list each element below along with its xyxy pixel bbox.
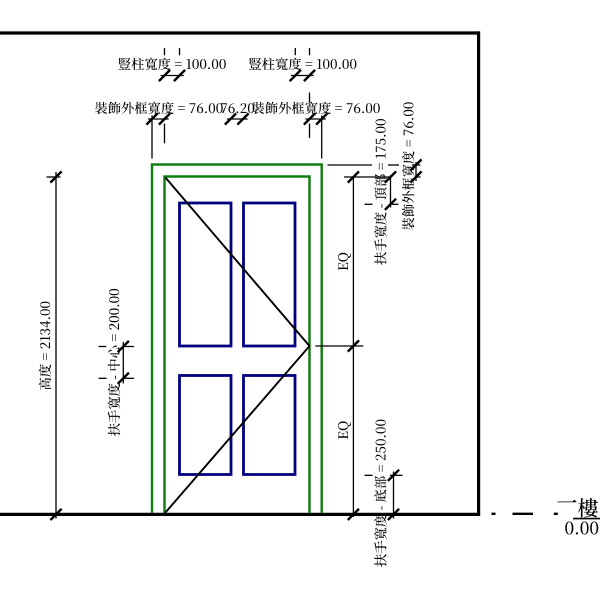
witness dash above: [164, 48, 166, 55]
witness right trim inner: [309, 124, 311, 139]
door swing diagonal lower: [165, 346, 309, 513]
dim line handle bottom: [393, 472, 395, 519]
door panel bottom-right (navy): [244, 376, 296, 475]
wall top edge: [0, 31, 480, 34]
witness left trim inner: [164, 124, 166, 144]
text height 2134: [39, 302, 51, 390]
dim line mid stile 76.20: [227, 118, 248, 120]
text stile width 100 right: [249, 58, 356, 71]
level line dot 1: [492, 513, 496, 515]
witness y204 b: [389, 203, 399, 205]
text handle bottom 250: [374, 420, 387, 567]
dim line trim-right: [305, 118, 325, 120]
witness y378 left b: [124, 377, 134, 379]
witness y475 a: [365, 474, 373, 476]
text EQ lower: [338, 421, 351, 439]
text trim width 76 right: [252, 102, 380, 115]
text stile width 100 left: [118, 58, 225, 71]
dim line stile-left: [161, 75, 184, 77]
witness dash above: [179, 48, 181, 55]
witness y177 b: [416, 176, 421, 178]
witness left trim outer: [151, 116, 153, 159]
witness y165 a: [328, 164, 373, 166]
witness y204 a: [365, 203, 373, 205]
wall bottom / floor line: [0, 513, 480, 516]
witness y475 b: [390, 474, 403, 476]
door inner frame (green): [165, 177, 310, 514]
witness y177 a: [344, 176, 390, 178]
door panel top-right (navy): [244, 203, 296, 346]
dim line handle center: [122, 342, 124, 384]
witness dash above: [309, 48, 311, 55]
dim line handle top: [390, 175, 392, 208]
witness right trim outer: [321, 116, 323, 159]
level line dash: [513, 513, 534, 515]
text elevation 0.00: [565, 522, 598, 535]
witness y165 c: [412, 164, 421, 166]
witness y346 left a: [99, 346, 107, 348]
text trim width 76 vertical: [402, 102, 415, 230]
text handle center 200: [108, 289, 121, 436]
text 76.20 middle: [221, 103, 254, 113]
dim line stile-right: [291, 75, 314, 77]
level head underline: [573, 518, 600, 520]
text EQ upper: [338, 253, 351, 271]
dim line trim-left: [148, 118, 169, 120]
text handle top 175: [374, 119, 387, 265]
door swing diagonal upper: [165, 177, 309, 346]
door outer trim (green): [152, 165, 322, 514]
dim line trim top: [415, 162, 417, 181]
witness height top: [47, 176, 61, 178]
witness y346 left b: [124, 346, 134, 348]
witness y346: [315, 345, 363, 347]
EQ dimension line: [352, 176, 354, 517]
witness y378 left a: [99, 377, 107, 379]
height dimension line: [55, 172, 57, 519]
text trim width 76 left: [95, 102, 223, 115]
door panel bottom-left (navy): [180, 376, 232, 475]
witness dash above: [294, 48, 296, 55]
level line dot 2: [554, 513, 558, 515]
text level name 1F: [557, 500, 576, 503]
door panel top-left (navy): [180, 203, 232, 346]
wall right edge: [477, 31, 480, 516]
witness dash between rows: [309, 93, 311, 104]
witness y165 b: [388, 164, 399, 166]
